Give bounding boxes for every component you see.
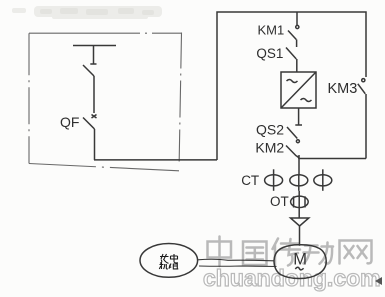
svg-text:CT: CT: [241, 173, 259, 188]
svg-text:KM2: KM2: [255, 139, 284, 155]
svg-text:QS2: QS2: [256, 122, 284, 138]
svg-text:QS1: QS1: [256, 46, 283, 61]
svg-text:KM1: KM1: [258, 23, 285, 38]
svg-text:M: M: [293, 250, 307, 268]
svg-text:OT: OT: [270, 194, 289, 209]
svg-text:KM3: KM3: [328, 81, 358, 97]
svg-text:QF: QF: [60, 114, 79, 130]
